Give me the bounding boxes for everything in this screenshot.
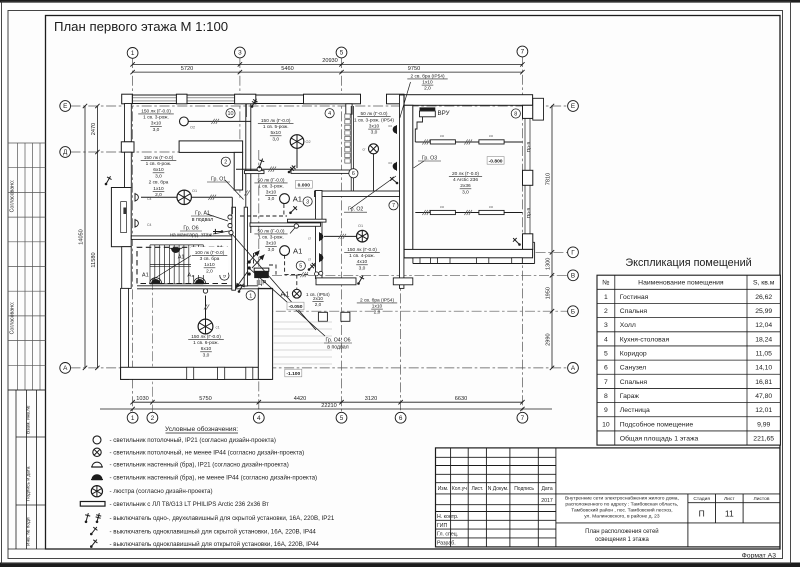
svg-text:1х10: 1х10: [372, 304, 383, 310]
svg-text:3,0: 3,0: [268, 196, 275, 202]
svg-text:План первого этажа М 1:100: План первого этажа М 1:100: [54, 19, 228, 34]
svg-text:- выключатель одноклавишный дл: - выключатель одноклавишный для скрытой …: [110, 529, 317, 536]
room7 fan: [357, 230, 369, 242]
garage VRU: [420, 107, 436, 110]
svg-text:9,99: 9,99: [757, 421, 770, 428]
leader Gr.O6: [213, 231, 229, 234]
svg-text:расположенного по адресу : Там: расположенного по адресу : Тамбовская об…: [565, 502, 678, 508]
svg-text:16,81: 16,81: [755, 379, 772, 386]
svg-text:50 лк (Г-0.0): 50 лк (Г-0.0): [258, 228, 285, 234]
hall lamp A1: [280, 194, 290, 204]
svg-text:2 св. бра (IP54): 2 св. бра (IP54): [360, 297, 394, 303]
svg-text:Гл. спец.: Гл. спец.: [437, 532, 458, 538]
switch hall/kitchen two-gang: [288, 165, 296, 173]
stairs right wall: [232, 207, 236, 290]
svg-text:сз: сз: [388, 161, 392, 165]
top dimension line 20930: [133, 63, 523, 65]
svg-text:4х10: 4х10: [357, 259, 368, 265]
level 0.000: [295, 181, 312, 189]
svg-text:Лист: Лист: [724, 496, 735, 502]
sanuzel lamp: [369, 144, 379, 154]
svg-text:Инв. № подл: Инв. № подл: [26, 517, 32, 546]
right axis bubbles: [568, 101, 579, 112]
svg-text:2: 2: [604, 308, 608, 315]
svg-text:Наименование помещения: Наименование помещения: [638, 280, 724, 287]
svg-text:- светильник потолочный, IP21: - светильник потолочный, IP21 (согласно …: [110, 437, 276, 444]
svg-text:Изм.: Изм.: [438, 486, 449, 492]
svg-text:Н. контр.: Н. контр.: [437, 514, 458, 520]
svg-text:6: 6: [604, 365, 608, 372]
svg-text:1: 1: [131, 415, 135, 422]
svg-text:Согласовано:: Согласовано:: [10, 180, 16, 213]
svg-text:2470: 2470: [91, 123, 97, 135]
svg-text:7: 7: [521, 415, 525, 422]
svg-text:Лист.: Лист.: [471, 486, 483, 492]
svg-text:7: 7: [392, 203, 395, 209]
ann stairs: [192, 250, 228, 275]
svg-text:Условные обозначения:: Условные обозначения:: [165, 425, 238, 433]
svg-text:Кол.уч: Кол.уч: [452, 486, 467, 492]
svg-text:4 Arctic 236: 4 Arctic 236: [453, 177, 478, 183]
svg-text:5: 5: [340, 50, 344, 57]
svg-text:1х10: 1х10: [153, 186, 164, 192]
room bubbles: [226, 109, 235, 118]
kitchen junction: [257, 167, 261, 171]
svg-text:10: 10: [602, 421, 610, 428]
svg-text:- светильник с ЛЛ Т8/G13 LT P: - светильник с ЛЛ Т8/G13 LT PHILIPS Arct…: [110, 501, 270, 508]
garage porch outline: [413, 263, 535, 265]
svg-text:2 св. бра (IP54): 2 св. бра (IP54): [410, 73, 444, 79]
svg-text:- светильник настенный (бра),: - светильник настенный (бра), не менее I…: [110, 474, 318, 481]
legend row9 switch: [90, 540, 97, 548]
svg-text:20930: 20930: [322, 58, 338, 64]
svg-text:S, кв.м: S, кв.м: [753, 280, 775, 287]
bottom wall living room: [121, 367, 271, 379]
svg-text:-0.800: -0.800: [489, 158, 503, 164]
svg-text:3: 3: [238, 50, 242, 57]
kitchen wire: [296, 148, 298, 168]
svg-text:150 лк (Г-0.0): 150 лк (Г-0.0): [261, 118, 291, 124]
svg-text:- выключатель одно-, двухклави: - выключатель одно-, двухклавишный для с…: [110, 515, 335, 522]
svg-text:Подпись: Подпись: [514, 486, 534, 492]
svg-text:6: 6: [399, 415, 403, 422]
svg-text:№: №: [602, 280, 609, 287]
svg-text:2: 2: [151, 415, 155, 422]
svg-text:Гр. О2: Гр. О2: [348, 207, 363, 213]
svg-text:Лестница: Лестница: [620, 407, 650, 414]
svg-text:3,0: 3,0: [462, 189, 469, 195]
svg-text:1 св. 3-рож.: 1 св. 3-рож.: [258, 184, 284, 190]
svg-text:0.000: 0.000: [298, 182, 311, 188]
svg-text:1х10: 1х10: [422, 80, 433, 86]
divider wall room10/2 vertical: [234, 152, 242, 190]
svg-text:Спальня: Спальня: [620, 308, 648, 315]
svg-text:- светильник настенный (бра),: - светильник настенный (бра), IP21 (согл…: [110, 462, 289, 469]
svg-text:Формат А3: Формат А3: [742, 553, 777, 560]
svg-text:со: со: [440, 134, 444, 138]
kitchen bottom wall: [245, 171, 265, 174]
hall dashed wires: [283, 204, 285, 216]
svg-text:А1: А1: [293, 195, 302, 204]
svg-text:ГИП: ГИП: [437, 523, 448, 529]
ann sanuzel: [354, 111, 394, 136]
svg-text:Пр-9: Пр-9: [526, 141, 532, 152]
svg-text:3х10: 3х10: [266, 190, 277, 196]
svg-text:Разраб.: Разраб.: [437, 540, 456, 546]
top axis bubbles: [127, 48, 138, 59]
svg-text:Г: Г: [571, 250, 575, 257]
house right wall: [400, 95, 404, 288]
svg-text:2х36: 2х36: [460, 183, 471, 189]
left dimension line 2470/11580: [96, 106, 98, 368]
svg-text:Кухня-столовая: Кухня-столовая: [620, 336, 670, 343]
svg-text:С4: С4: [147, 223, 152, 227]
svg-text:Санузел: Санузел: [620, 365, 647, 372]
level -0.800: [487, 157, 504, 165]
switch living room: [238, 284, 245, 293]
svg-text:26,62: 26,62: [755, 294, 772, 301]
axis G line: [500, 251, 568, 253]
svg-text:3 св. бра: 3 св. бра: [200, 256, 220, 262]
room2 bras: [135, 193, 138, 202]
svg-text:N Докум.: N Докум.: [488, 486, 509, 492]
legend row3 bra ip21: [92, 462, 102, 467]
svg-text:8: 8: [514, 111, 517, 117]
svg-text:П: П: [699, 509, 705, 519]
leader Gr.A1: [207, 214, 228, 221]
svg-text:2990: 2990: [546, 333, 552, 345]
svg-text:5: 5: [604, 350, 608, 357]
garage lamps row1: [430, 140, 455, 144]
sanuzel bras: [393, 125, 396, 134]
svg-text:в подвал: в подвал: [192, 217, 213, 223]
svg-text:А: А: [571, 365, 576, 372]
svg-text:221,65: 221,65: [753, 435, 774, 442]
svg-text:3120: 3120: [365, 396, 377, 402]
svg-text:Гр. А1: Гр. А1: [195, 211, 210, 217]
garage switch: [513, 238, 521, 246]
explication table: [597, 275, 780, 445]
svg-text:О2: О2: [306, 140, 311, 144]
svg-text:Спальня: Спальня: [620, 379, 648, 386]
svg-text:150 лк (Г-0.0): 150 лк (Г-0.0): [144, 155, 174, 161]
svg-text:12,04: 12,04: [755, 322, 772, 329]
sanuzel bottom wall: [315, 191, 400, 197]
svg-text:1 св. 6-рож.: 1 св. 6-рож.: [193, 340, 219, 346]
svg-text:Е: Е: [571, 103, 575, 110]
svg-text:5750: 5750: [199, 396, 211, 402]
svg-text:11: 11: [725, 509, 734, 519]
legend row7 switches: [85, 513, 91, 523]
svg-text:14,10: 14,10: [755, 365, 772, 372]
leader Gr.O2: [350, 176, 396, 209]
svg-text:со: со: [489, 134, 493, 138]
room7 bottom wall right part: [393, 278, 413, 285]
ann room7: [344, 247, 380, 272]
svg-text:12,01: 12,01: [755, 407, 772, 414]
svg-text:150 лк (Г-0.0): 150 лк (Г-0.0): [141, 108, 171, 114]
left strip bottom block: [15, 390, 17, 549]
left wall: [125, 104, 132, 142]
ann stairs bg: [191, 247, 228, 275]
top dimension line segments: [133, 71, 523, 73]
svg-text:1 св. 4-рож.: 1 св. 4-рож.: [349, 253, 375, 259]
svg-text:Б: Б: [571, 308, 575, 315]
svg-text:3х10: 3х10: [369, 124, 380, 130]
svg-text:Стадия: Стадия: [693, 496, 710, 502]
svg-text:1х10: 1х10: [204, 262, 215, 268]
bottom axis bubbles: [127, 412, 138, 423]
garage right wall middle pier: [523, 170, 533, 185]
room7 bottom wall left part: [316, 278, 356, 285]
svg-text:1 св. 6-рож.: 1 св. 6-рож.: [146, 161, 172, 167]
ann corridor: [254, 228, 287, 253]
room2 fan lamp O1: [177, 190, 191, 204]
left wall segment 2: [125, 152, 132, 187]
stairs dashed loop: [137, 247, 228, 283]
svg-text:со: со: [489, 205, 493, 209]
garage left wall: [404, 105, 413, 257]
svg-text:10: 10: [228, 111, 234, 117]
ann hall: [254, 177, 287, 202]
stairs room9 bubble: [220, 271, 229, 280]
svg-text:Д: Д: [63, 149, 68, 156]
svg-text:3: 3: [306, 199, 309, 205]
level -1.100: [285, 369, 302, 377]
legend row8 switch: [90, 527, 97, 535]
ann garage top bra: [407, 73, 447, 91]
svg-text:3,0: 3,0: [268, 247, 275, 253]
svg-text:Гр. О1: Гр. О1: [211, 177, 226, 183]
left wall below bay: [122, 247, 132, 289]
svg-text:2,0: 2,0: [315, 302, 322, 307]
bottom wall mullions: [187, 367, 194, 379]
svg-text:1 св. 5-рож.: 1 св. 5-рож.: [263, 124, 289, 130]
svg-text:7: 7: [604, 379, 608, 386]
garage right wall bottom pier: [523, 234, 533, 250]
legend row1 ceiling lamp: [93, 436, 101, 444]
bay window: [111, 188, 131, 247]
axis E line: [71, 105, 568, 107]
svg-text:Общая площадь 1 этажа: Общая площадь 1 этажа: [620, 434, 699, 442]
svg-text:5: 5: [340, 415, 344, 422]
svg-text:4: 4: [604, 336, 608, 343]
svg-text:1 св. 3-рож. (IP54): 1 св. 3-рож. (IP54): [354, 117, 394, 123]
svg-text:Экспликация помещений: Экспликация помещений: [625, 257, 751, 269]
axis V line: [272, 274, 568, 276]
switch room10 top: [251, 99, 258, 108]
svg-text:50 лк (Г-0.0): 50 лк (Г-0.0): [258, 177, 285, 183]
garage slashes: [422, 139, 430, 144]
svg-text:2,0: 2,0: [374, 310, 381, 316]
garage right window 2: [524, 185, 526, 234]
svg-text:ВРУ: ВРУ: [438, 110, 450, 117]
svg-text:6: 6: [352, 171, 355, 177]
axis 7 line: [521, 57, 523, 413]
corridor top wall: [250, 223, 321, 226]
svg-text:150 лк (Г-0.0): 150 лк (Г-0.0): [347, 247, 377, 253]
svg-text:3,0: 3,0: [359, 265, 366, 271]
stairs arrow: [152, 250, 200, 280]
ShchR arrows: [252, 255, 265, 269]
svg-text:- светильник потолочный, не ме: - светильник потолочный, не менее IP44 (…: [110, 449, 305, 456]
bottom dimension line segments: [133, 401, 523, 403]
svg-text:7810: 7810: [546, 173, 552, 185]
ann room10: [138, 108, 174, 133]
svg-text:3,0: 3,0: [203, 352, 210, 358]
garage wire drop: [415, 117, 422, 142]
svg-text:ул. Малиновского, в районе д.: ул. Малиновского, в районе д. 23: [584, 513, 660, 520]
room7 bras: [320, 232, 323, 241]
svg-text:-0.050: -0.050: [289, 304, 303, 310]
svg-text:150 лк (Г-0.0): 150 лк (Г-0.0): [191, 334, 221, 340]
room10 right wall: [245, 104, 247, 234]
switch near ShchR wall: [308, 263, 316, 271]
svg-text:4: 4: [257, 415, 261, 422]
svg-text:О1: О1: [358, 224, 363, 228]
ann garage: [449, 171, 482, 196]
svg-text:Подсобное помещение: Подсобное помещение: [620, 420, 694, 428]
sanuzel left wall: [350, 106, 352, 191]
svg-text:20 лк (Г-0.0): 20 лк (Г-0.0): [452, 171, 479, 177]
left strip stamp table: [17, 143, 19, 390]
svg-text:сз: сз: [388, 124, 392, 128]
svg-text:100 лк (Г-0.0): 100 лк (Г-0.0): [195, 250, 225, 256]
terrace deck lines: [274, 322, 333, 364]
axis A line: [71, 367, 568, 369]
svg-text:План расположения сетей: План расположения сетей: [585, 528, 659, 535]
switch room7 top: [390, 177, 398, 185]
svg-text:А1: А1: [293, 247, 302, 256]
divider wall room10/2 horizontal: [179, 141, 243, 153]
svg-text:Гостиная: Гостиная: [620, 294, 649, 301]
svg-text:1: 1: [249, 293, 252, 299]
svg-text:1 св. 3-рож.: 1 св. 3-рож.: [143, 115, 169, 121]
svg-text:со: со: [440, 205, 444, 209]
svg-text:В: В: [571, 273, 575, 280]
svg-text:18,24: 18,24: [755, 336, 772, 343]
svg-text:3,0: 3,0: [272, 136, 279, 142]
top wall window lines: [132, 97, 176, 99]
svg-text:Гараж: Гараж: [620, 393, 640, 400]
corridor lamp A1: [280, 246, 290, 256]
svg-text:Тамбовский район , пос. Тамбов: Тамбовский район , пос. Тамбовский лесхо…: [571, 507, 672, 514]
leader Gr.O3: [414, 161, 425, 168]
pier axis D: [121, 142, 134, 152]
svg-text:О2: О2: [190, 126, 195, 130]
level -0.050: [287, 302, 304, 310]
svg-text:О1: О1: [192, 189, 197, 193]
svg-text:2,0: 2,0: [206, 268, 213, 274]
legend row6 fluorescent: [80, 502, 105, 507]
long diagonal to Gr.O4 O6: [250, 269, 325, 336]
svg-text:22210: 22210: [321, 403, 337, 409]
svg-text:4: 4: [328, 111, 331, 117]
svg-text:6630: 6630: [455, 396, 467, 402]
garage right pilaster top: [533, 98, 544, 120]
svg-text:5460: 5460: [281, 66, 293, 72]
svg-text:Листов: Листов: [754, 496, 770, 502]
svg-text:14050: 14050: [79, 229, 85, 245]
svg-text:Гр. О3: Гр. О3: [422, 156, 437, 162]
svg-text:3х10: 3х10: [266, 241, 277, 247]
top wall piers: [122, 94, 133, 104]
left dimension line 14050: [84, 106, 86, 368]
hall second wall: [244, 207, 247, 286]
svg-text:Дата: Дата: [542, 486, 553, 492]
room10 lamp O2: [180, 117, 189, 126]
svg-text:50 лк (Г-0.0): 50 лк (Г-0.0): [361, 111, 388, 117]
ann room2: [141, 155, 177, 198]
garage lamps row2: [430, 210, 455, 214]
terrace pillars: [318, 312, 327, 321]
legend row2 ip44 lamp: [93, 448, 101, 456]
svg-text:6х10: 6х10: [201, 346, 212, 352]
wire room2: [141, 196, 177, 198]
garage right wall top corner: [523, 105, 533, 118]
garage room bubble: [511, 109, 520, 118]
svg-text:2,0: 2,0: [155, 192, 162, 198]
svg-text:- выключатель одноклавишный дл: - выключатель одноклавишный для открытой…: [110, 541, 320, 548]
garage right window 1: [524, 118, 526, 170]
ann living: [188, 334, 224, 359]
leader Gr.O1: [225, 180, 244, 200]
svg-text:Внутренние сети электроснабжен: Внутренние сети электроснабжения жилого …: [565, 496, 679, 502]
svg-text:2 св. бра: 2 св. бра: [149, 180, 169, 186]
svg-text:3,0: 3,0: [155, 173, 162, 179]
svg-text:3,0: 3,0: [371, 130, 378, 136]
stairs bras: [149, 278, 162, 284]
garage porch pillars: [420, 258, 431, 264]
svg-text:1030: 1030: [136, 396, 148, 402]
svg-text:А1: А1: [178, 255, 185, 261]
svg-text:25,99: 25,99: [755, 308, 772, 315]
svg-text:А: А: [63, 365, 68, 372]
wire room10: [188, 120, 251, 122]
junction wall risers: [228, 215, 232, 219]
svg-text:5: 5: [299, 264, 302, 270]
svg-text:1950: 1950: [546, 287, 552, 299]
svg-text:Пр-9: Пр-9: [526, 207, 532, 218]
axis 1 line: [132, 58, 134, 413]
page edge bars: [0, 0, 800, 3]
stairs treads: [150, 245, 203, 284]
svg-text:1 св. 3-рож.: 1 св. 3-рож.: [258, 235, 284, 241]
garage bottom wall: [404, 249, 532, 257]
svg-text:1: 1: [604, 294, 608, 301]
ann kitchen: [258, 118, 294, 143]
left axis bubbles: [60, 101, 71, 112]
svg-text:4420: 4420: [294, 396, 306, 402]
room7 left wall: [316, 191, 323, 279]
vent shaft squares: [345, 114, 350, 118]
svg-text:Коридор: Коридор: [620, 350, 647, 357]
svg-text:11,05: 11,05: [755, 350, 772, 357]
svg-text:Холл: Холл: [620, 322, 636, 329]
svg-text:3,0: 3,0: [153, 127, 160, 133]
legend row5 chandelier: [91, 486, 102, 497]
axis B line: [258, 310, 568, 312]
svg-text:11580: 11580: [91, 252, 97, 267]
legend row4 bra ip44: [92, 475, 102, 480]
svg-text:2: 2: [224, 160, 227, 166]
svg-text:2,0: 2,0: [424, 86, 431, 92]
axis D line: [71, 151, 191, 153]
ShchR panel: [254, 268, 269, 271]
bottom dimension line 22210: [100, 408, 552, 410]
svg-text:Взам. инв.№: Взам. инв.№: [26, 406, 32, 434]
svg-text:освещения 1 этажа: освещения 1 этажа: [595, 537, 650, 543]
